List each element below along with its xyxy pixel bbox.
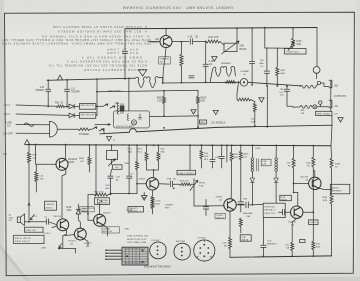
jumper loop column [107,145,123,193]
svg-text:2N1306: 2N1306 [150,42,159,44]
wire Q6 emitter [229,211,231,237]
wire Q5 emitter resistor [151,190,154,214]
svg-text:NJA: NJA [156,203,161,206]
capacitor column x129.1 [127,145,132,193]
svg-text:CMA: CMA [103,199,108,202]
wire into Q5 base [137,184,146,194]
speaker SP1 [17,214,24,226]
capacitor C13 [203,64,208,82]
wire lamp to transformer [248,82,300,86]
svg-text:2N1415: 2N1415 [68,241,76,243]
pot wiper arrow R40 [288,42,294,51]
page corner cut bottom-left [0,246,28,281]
svg-text:DWGT 0013: DWGT 0013 [287,52,300,54]
label box IPA [14,235,45,243]
socket view 3 [194,240,215,261]
volume pot P1 [190,179,224,207]
gnd arrow [59,244,61,249]
svg-text:DUAL CONTROL: DUAL CONTROL [178,172,195,175]
wire switch arrow into lampbox [95,124,111,126]
wire Q4 base [88,214,94,220]
junction dots top rail [165,27,294,128]
svg-text:2N2476: 2N2476 [81,211,89,213]
sleeve circle output [313,105,317,109]
svg-text:SA4T PORT 4: SA4T PORT 4 [108,90,123,93]
svg-text:600: 600 [201,99,206,103]
svg-text:DGR (P.R.): DGR (P.R.) [264,206,275,208]
wire column x212 [212,145,214,159]
resistor R11 column [200,145,203,168]
wire Q8 emitter lead [163,48,166,84]
svg-text:P1A: P1A [128,151,133,154]
wire heater rail C [100,125,332,134]
svg-text:COIL 21 AND 2 H7A: COIL 21 AND 2 H7A [127,241,146,244]
svg-text:SELECT FOR 52 OF: SELECT FOR 52 OF [127,239,147,241]
svg-text:R7A: R7A [323,199,328,202]
svg-text:T8B: T8B [280,89,284,91]
svg-text:P4A: P4A [167,178,172,181]
capacitor C19 column [219,145,224,168]
wire right bus connecting railC railD [331,115,332,145]
svg-text:8Ω: 8Ω [335,84,338,88]
svg-text:AND 2 H4: AND 2 H4 [103,230,113,233]
wire drop x317 [316,28,318,67]
svg-text:DIGR #12.V: DIGR #12.V [264,213,276,215]
svg-text:C6A: C6A [306,162,311,165]
wire onoff line [16,132,50,134]
jack J2 [317,100,332,107]
resistor R1 right [312,146,315,222]
svg-text:2N2148: 2N2148 [300,177,308,179]
fuse F1 [24,123,34,126]
wire drop x252 [251,28,253,61]
socket view 2 [174,243,190,260]
wire top supply rail [125,28,317,29]
wire jack bus [330,81,332,111]
wire into bass pot [220,42,224,46]
capacitor C28 small column [203,200,209,216]
diode box CR2 [95,198,110,205]
resistor R30 [27,145,30,222]
wavy resistor R27 output top [300,85,316,88]
label box 30A [240,235,251,241]
wire fuse line [16,124,50,126]
diode CR3 [250,178,254,205]
svg-text:30A 5A: 30A 5A [241,238,248,241]
wire column x226.9 [226,145,228,162]
svg-text:ON-OFF: ON-OFF [3,132,13,136]
svg-text:REV: REV [165,208,170,210]
svg-text:GND: GND [125,229,130,231]
svg-text:COLLECT: COLLECT [151,240,161,242]
svg-text:DWG Y4: DWG Y4 [216,217,225,219]
wire Q1 emitter down [62,169,66,219]
wire gnd run [59,248,76,253]
svg-text:47Ω: 47Ω [316,243,320,246]
svg-text:2N2148 BOTTOM VIEWS: 2N2148 BOTTOM VIEWS [144,267,171,269]
svg-text:2N5672: 2N5672 [84,243,92,245]
svg-text:SPKR 115VAC: SPKR 115VAC [317,112,331,115]
interstage transformer T3 [251,145,278,178]
svg-text:2N2148: 2N2148 [288,222,296,224]
power transformer T1 primary [116,103,125,114]
wire to heater rail [103,129,105,134]
wire long column x96 [95,145,97,195]
capacitor C16 on rails [189,76,194,78]
svg-text:TD: TD [335,167,338,169]
svg-text:GB: GB [155,39,159,41]
label box SR5 [79,113,95,119]
svg-text:50A: 50A [251,121,255,124]
label box Csm [300,240,306,243]
svg-text:SPKR 21B: SPKR 21B [25,230,36,232]
svg-text:M9B: M9B [125,163,130,165]
label box speaker note [316,111,332,115]
jack J1 [316,80,332,87]
svg-text:CMA 21B: CMA 21B [160,58,170,61]
resistor R7A [330,189,333,256]
svg-text:P1A: P1A [199,185,204,188]
wire Q8 base lead [148,41,160,43]
svg-text:A4B: A4B [259,62,264,65]
wire Q7 emitter [319,188,332,189]
svg-text:53A: 53A [246,215,250,218]
svg-text:AC 1: AC 1 [4,103,10,107]
svg-text:OUTPUTS: OUTPUTS [334,94,347,98]
svg-text:2N1415: 2N1415 [53,216,61,218]
wire Q3 base [65,234,74,237]
svg-text:POWER: POWER [79,132,89,136]
ground triangle x193.5 [191,110,196,114]
notes block (rotated text lines) [2,25,151,72]
wire speaker to cap [25,221,47,223]
transistor Q3 [74,228,86,240]
wire plug out [57,128,78,130]
pointer arrow [30,215,34,220]
label box amperes [330,184,350,194]
svg-text:1-2N: 1-2N [262,164,267,166]
resistor R3 right [292,146,295,193]
capacitor C26 column [261,218,267,257]
wire base column [36,145,56,165]
junction dots mid [28,144,191,250]
svg-text:25Ω: 25Ω [67,208,72,212]
wire Q8 output [172,41,189,43]
wire Q2 base [52,226,57,228]
svg-text:SRE T53 ONLY WELL SIG-AMP TERM: SRE T53 ONLY WELL SIG-AMP TERMS OSCIL. F… [2,42,151,46]
resistor R21 column [136,145,139,184]
wire AC1 [16,105,56,106]
feedback chain right [237,82,256,126]
potentiometer P3 BASS box [222,41,240,54]
svg-text:RESTONE CONNECTS POTLED: RESTONE CONNECTS POTLED [84,68,147,72]
ground triangle x215.8 [213,110,218,114]
resistor R40 [292,28,295,48]
capacitor C10 [46,80,51,106]
wire AC2 [16,114,69,115]
svg-text:2N508: 2N508 [216,197,223,199]
svg-text:CMA 44: CMA 44 [103,228,111,231]
svg-text:OTA 2F LAMP: OTA 2F LAMP [107,47,138,51]
wire Q6 out [236,204,245,206]
wire bottom rail E [230,256,332,257]
title rotated [123,5,233,9]
wire Q9 collector [294,192,298,206]
capacitor C18 [210,160,215,168]
wire v267 [266,86,268,127]
resistor R50 [56,105,65,108]
label box SR2 [79,104,95,110]
jack J3 small circle [313,67,320,79]
wire coupling row [108,194,137,195]
diode CR1 [76,204,80,218]
svg-text:8 DB 3S SEP FOR TR2 BALDNESS T: 8 DB 3S SEP FOR TR2 BALDNESS T7P 3 [67,59,147,63]
diode CR4 [274,178,278,203]
warning triangle outputs [338,118,343,122]
svg-text:-GND: -GND [40,248,46,250]
svg-text:120: 120 [157,99,162,103]
wire Q4 collector [99,204,101,214]
warning triangle up at railA [57,75,62,80]
wire Q9 out [303,211,313,213]
svg-text:R4A-R4B: R4A-R4B [243,212,253,215]
svg-text:2N508: 2N508 [139,179,146,181]
svg-text:1/2MEG: 1/2MEG [165,205,173,207]
label box DWGT [285,49,307,55]
label box CMAETV [128,207,144,213]
svg-text:10K: 10K [33,158,37,160]
transistor Q4 [94,214,106,226]
svg-text:4Ω: 4Ω [335,104,338,108]
svg-text:2N2476: 2N2476 [103,213,111,215]
warning triangle railD left [24,140,29,145]
transistor Q5 [146,178,158,190]
svg-text:P2A2B: P2A2B [281,198,288,201]
svg-text:LUC: LUC [279,92,284,94]
wire Q9 base cap [279,209,291,215]
switch arrows S2 [90,127,104,131]
svg-text:IPA 61 1206 TC: IPA 61 1206 TC [15,240,31,243]
resistor R31 [35,164,38,192]
resistor on railB [225,81,236,84]
warning triangle primary [212,57,218,62]
wire Q5 out row [159,183,170,185]
svg-text:PRIMARY: PRIMARY [221,62,231,65]
resistor R06 [197,90,200,127]
svg-text:C4B: C4B [116,177,121,179]
svg-text:750MFD: 750MFD [35,90,44,92]
svg-text:2N2148: 2N2148 [331,187,339,189]
capacitor C14 [190,39,206,45]
svg-text:2N5 EU: 2N5 EU [45,208,53,210]
wire Q3 emitter [84,239,88,246]
pilot lamp box [114,111,150,128]
resistor R05 [163,91,166,116]
wire left drop from top rail [124,29,126,51]
svg-text:KW3: KW3 [256,148,262,150]
resistor R43 [180,42,183,83]
svg-text:R41 47K: R41 47K [209,35,219,39]
lamp I1 [240,79,248,87]
svg-text:6. ONLY 2N1 45524 MAX R AND A: 6. ONLY 2N1 45524 MAX R AND A 8791 THREO… [42,35,149,39]
svg-text:4Ω: 4Ω [9,214,12,217]
resistor R23 column [154,145,160,170]
svg-text:40B5: 40B5 [243,154,249,156]
svg-text:EMITTER: EMITTER [176,241,186,243]
wire column x240.8 [238,145,244,212]
transistor Q1 [56,158,68,170]
svg-text:.02: .02 [195,35,199,39]
label box dualcontrol [177,170,196,175]
wire SR2 out [96,105,103,107]
svg-text:IPA CO 1931 85: IPA CO 1931 85 [15,237,31,240]
zobel network [264,28,292,86]
label box DGR big [263,203,285,217]
transistor Q8 [160,36,172,48]
svg-text:KBCR A.1.1: KBCR A.1.1 [264,209,276,212]
capacitor C22 [46,219,57,225]
resistor power [78,128,90,131]
svg-text:P4B: P4B [243,199,248,201]
svg-text:WNE: WNE [79,158,85,160]
svg-text:50A2: 50A2 [335,163,341,166]
resistor R2 right [330,158,333,189]
wire lamp feed drop [128,78,130,111]
svg-text:10V: 10V [243,157,247,159]
svg-text:PASSING: PASSING [267,243,277,246]
resistor R22 column [145,145,154,170]
wire Q1 collector [65,145,67,160]
capacitor C25 [246,202,263,208]
wire diode box feed [88,195,94,214]
resistor R33 big zigzag [136,77,159,88]
capacitor C11 [65,80,70,107]
label box SPKR [24,227,43,232]
svg-text:AMPERES: AMPERES [331,190,342,193]
svg-text:12V MODELS: 12V MODELS [211,122,226,124]
svg-text:.02: .02 [209,62,213,66]
svg-text:4TB: 4TB [301,113,305,115]
resistor R8 [291,242,294,256]
svg-text:60A5: 60A5 [68,160,75,164]
label box C4B2 [261,159,271,166]
svg-text:SR2 SILICON: SR2 SILICON [80,105,94,107]
wire rectifier junction [96,92,98,116]
ground triangle feedback [259,98,264,103]
svg-text:MV6: MV6 [106,185,111,187]
svg-text:2MP: 2MP [204,156,209,158]
label box A7B [280,195,292,200]
capacitor C24 [170,181,179,187]
wire B+ rail A [47,78,136,80]
resistor R26 [180,183,192,186]
label box CMA21B [45,201,57,210]
resistor R13 [229,237,232,257]
svg-text:WKS2: WKS2 [199,183,206,185]
wire railA to railB elbow [158,77,240,83]
svg-text:KEA: KEA [280,72,285,75]
svg-text:BASS: BASS [240,47,247,51]
svg-text:750MFD: 750MFD [71,92,80,94]
svg-text:4. R27 WAS 390 OHM IN EARLIER: 4. R27 WAS 390 OHM IN EARLIER MODELS [58,29,147,33]
svg-text:MV1: MV1 [128,149,133,151]
resistor R32 [312,222,315,256]
wire into R28 [293,106,300,108]
transistor Q7 [309,177,321,189]
junction dots right [201,144,333,257]
svg-text:2N2476: 2N2476 [87,208,95,210]
svg-text:6TB PILOT LAMP: 6TB PILOT LAMP [116,125,134,128]
label CMA box bottom [102,227,120,233]
resistor R34 [94,193,108,196]
svg-text:1A: 1A [7,124,10,128]
svg-text:90V: 90V [160,62,164,64]
svg-text:10M: 10M [222,243,226,245]
warning triangle down x141 [138,70,146,76]
label box MR1 [200,120,207,124]
switch arrows S1 [103,104,115,108]
svg-text:1/2A: 1/2A [9,216,14,219]
svg-text:28 VDC: 28 VDC [43,233,51,235]
label box C32 [309,220,319,225]
svg-text:GARNET GUITAR AMP FK9 SCHEMA: GARNET GUITAR AMP FK9 SCHEMATIC DIAGRAM [123,5,233,9]
transistor Q9 [291,206,303,218]
wire Q4 emitter [103,225,107,236]
twin hump network [210,66,235,82]
wire Q7 collector [313,170,315,177]
wire B+ feed line [97,90,198,92]
svg-text:T4B: T4B [259,60,264,62]
capacitor C15 [250,62,255,85]
svg-text:CMA 21B: CMA 21B [45,203,54,206]
svg-text:WKS 47K: WKS 47K [180,181,190,183]
wire coupling node down [205,42,207,64]
svg-text:SR5 SILICON: SR5 SILICON [80,114,94,116]
resistor R35 column [88,145,91,172]
svg-text:GMMA 22R CHENDS T3P 4: GMMA 22R CHENDS T3P 4 [82,55,142,59]
ground triangle T2 [107,137,112,142]
svg-text:C14: C14 [188,35,193,39]
capacitor C12 [122,52,127,80]
svg-text:C10: C10 [40,87,45,89]
svg-text:2-10AMP: 2-10AMP [240,70,250,73]
svg-text:10K: 10K [40,179,44,181]
wire Q5 collector [153,170,155,178]
transistor Q2 [57,219,69,231]
svg-text:R50 .33: R50 .33 [55,103,64,105]
wire Q2 emitter [63,229,67,248]
diode SR2 [65,104,79,108]
wire Q8 collector [165,29,167,36]
svg-text:DUAL CONTROL 4700: DUAL CONTROL 4700 [127,235,149,238]
svg-text:22K: 22K [285,245,289,247]
ground triangle hatched [141,193,147,201]
svg-text:T1A: T1A [204,152,209,155]
tiny text labels [3,35,346,269]
svg-text:LUG: LUG [267,241,272,243]
svg-text:AC 2: AC 2 [4,112,10,116]
svg-text:NOTE T52 TRNSA BL S20 T45 857: NOTE T52 TRNSA BL S20 T45 857 ON MODEL T… [49,64,147,68]
label Q6 box [215,213,226,218]
svg-text:WB2: WB2 [280,70,286,72]
diode SR5 [69,113,79,117]
svg-text:NOTE: NOTE [127,210,133,212]
wire Q3 collector [78,218,80,228]
svg-text:VCM: VCM [156,201,161,203]
AC plug P1 [50,121,58,137]
wire right bus down [330,146,333,158]
socket view 1 [150,242,166,259]
